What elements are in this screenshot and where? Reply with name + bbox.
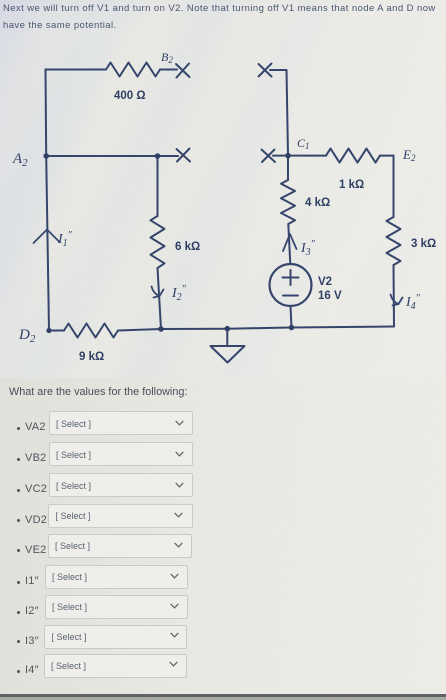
resistor R-1k 1kohm	[326, 149, 380, 163]
current arrow I2 mark	[152, 287, 164, 298]
row VE2	[17, 549, 20, 552]
wire middle branch lower	[158, 268, 162, 329]
svg-text:I4″: I4″	[405, 293, 421, 312]
V2 minus sign	[283, 295, 298, 297]
CIRCUIT SVG	[0, 0, 446, 380]
wire right vertical lower	[393, 265, 396, 327]
wire left vertical A-leg	[46, 70, 50, 331]
svg-text:3 kΩ: 3 kΩ	[411, 238, 436, 250]
wire top to switch B2	[160, 69, 177, 71]
wire top-left horizontal	[46, 69, 107, 71]
svg-text:1 kΩ: 1 kΩ	[339, 179, 364, 191]
svg-text:16 V: 16 V	[318, 290, 342, 302]
node dot bottom mid branch	[158, 326, 164, 332]
current arrow I4 mark	[391, 295, 403, 306]
node dot V2 bottom	[289, 325, 295, 331]
switch X middle-right	[262, 150, 276, 163]
node dot C1	[285, 153, 291, 159]
wire V2 to bottom rail	[291, 306, 292, 328]
svg-text:4 kΩ: 4 kΩ	[305, 197, 330, 209]
svg-text:C1: C1	[297, 136, 310, 151]
row VB2	[17, 458, 20, 461]
row I4	[17, 670, 20, 673]
wire bottom rail	[49, 330, 64, 332]
wire right vertical upper	[393, 156, 395, 217]
svg-text:6 kΩ: 6 kΩ	[175, 241, 200, 253]
ground stem	[226, 329, 228, 346]
V2 plus sign	[283, 270, 299, 285]
resistor R-3k 3kohm	[387, 217, 401, 265]
svg-text:E2: E2	[402, 147, 416, 163]
svg-text:I1″: I1″	[57, 230, 73, 249]
wire top-right stub from X	[270, 69, 287, 71]
wire middle branch C-leg upper	[157, 156, 159, 216]
voltage source V2 circle	[270, 264, 312, 306]
wire 1k to corner E2	[380, 155, 394, 157]
node dot A2	[43, 153, 49, 159]
wire 4k to V2 source	[288, 224, 290, 264]
row VA2	[17, 427, 20, 430]
svg-text:D2: D2	[18, 327, 36, 345]
row I2	[17, 611, 20, 614]
wire V2 branch upper	[287, 156, 289, 180]
row I1	[17, 581, 20, 584]
row I3	[17, 640, 20, 643]
svg-text:I2″: I2″	[171, 284, 187, 303]
resistor R-400 400ohm	[106, 63, 160, 77]
row VC2	[17, 489, 20, 492]
wire stub X to node C1	[273, 155, 288, 157]
svg-text:B2: B2	[161, 50, 173, 65]
resistor R-9k 9kohm	[64, 324, 118, 338]
node dot ground	[225, 326, 231, 332]
row VD2	[17, 519, 20, 522]
node dot D2 corner	[46, 328, 51, 333]
resistor R-4k 4kohm	[281, 180, 295, 224]
svg-text:A2: A2	[12, 151, 28, 169]
switch X at B2 (V1 removed)	[176, 64, 190, 78]
node dot mid branch top	[155, 153, 161, 159]
current arrow I1 head	[34, 230, 60, 244]
wire middle horizontal A2 row	[46, 155, 178, 157]
switch X middle-left	[177, 149, 191, 162]
wire bottom rail right of 9k	[118, 327, 394, 331]
ground triangle	[211, 346, 245, 363]
svg-text:9 kΩ: 9 kΩ	[79, 351, 104, 363]
wire C1 to resistor 1k	[288, 155, 326, 157]
switch X top-right	[259, 64, 272, 77]
svg-text:I3″: I3″	[300, 239, 316, 258]
resistor R-6k 6kohm	[151, 216, 165, 268]
svg-text:400 Ω: 400 Ω	[114, 90, 146, 102]
wire right vertical down to node C1	[287, 70, 289, 156]
current arrow I3 head	[283, 234, 297, 251]
svg-text:V2: V2	[318, 276, 332, 288]
